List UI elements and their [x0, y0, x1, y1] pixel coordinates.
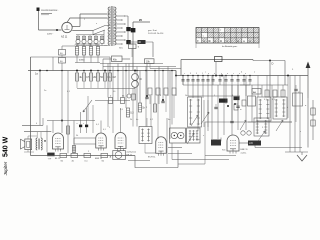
svg-text:EBF 11: EBF 11 — [95, 158, 103, 160]
svg-text:24: 24 — [243, 41, 245, 43]
svg-text:7: 7 — [254, 41, 255, 43]
svg-text:EL 11: EL 11 — [55, 158, 61, 160]
svg-text:wahlw.: wahlw. — [241, 153, 247, 155]
svg-text:09: 09 — [208, 41, 210, 43]
svg-text:540 W: 540 W — [2, 136, 9, 157]
svg-text:c: c — [233, 73, 234, 75]
svg-text:e: e — [221, 73, 222, 75]
svg-text:Netz: Netz — [119, 47, 123, 50]
svg-text:220V~: 220V~ — [47, 34, 54, 36]
svg-text:z: z — [300, 131, 301, 133]
svg-text:7: 7 — [231, 41, 232, 43]
svg-text:EBF 11: EBF 11 — [241, 149, 249, 151]
svg-text:W: W — [237, 41, 239, 43]
svg-text:c: c — [83, 123, 84, 125]
svg-text:1: 1 — [202, 73, 203, 75]
svg-text:5: 5 — [196, 73, 197, 75]
svg-text:24.10.41 Nr.114: 24.10.41 Nr.114 — [148, 32, 164, 35]
svg-text:wahlweise: wahlweise — [127, 152, 137, 154]
svg-text:AZ 11: AZ 11 — [61, 36, 68, 39]
svg-text:ECH 11: ECH 11 — [148, 157, 156, 159]
svg-text:D: D — [272, 62, 274, 66]
svg-text:W: W — [214, 41, 216, 43]
svg-text:7: 7 — [197, 41, 198, 43]
svg-text:c: c — [205, 72, 206, 74]
svg-text:Jupiter: Jupiter — [3, 161, 8, 175]
svg-text:110/125/150/220V~: 110/125/150/220V~ — [41, 10, 59, 12]
svg-text:220: 220 — [249, 142, 254, 145]
svg-text:40/50: 40/50 — [79, 60, 85, 62]
svg-text:W: W — [220, 41, 222, 43]
svg-text:1: 1 — [84, 19, 85, 21]
svg-text:3: 3 — [190, 73, 191, 75]
svg-text:Im Betrieb gem.: Im Betrieb gem. — [222, 45, 238, 48]
svg-text:gez. Kurt: gez. Kurt — [148, 29, 157, 32]
svg-text:c: c — [184, 73, 185, 75]
svg-text:13: 13 — [226, 41, 228, 43]
svg-text:24: 24 — [203, 41, 205, 43]
svg-text:e: e — [239, 73, 240, 75]
svg-text:24: 24 — [249, 41, 251, 43]
